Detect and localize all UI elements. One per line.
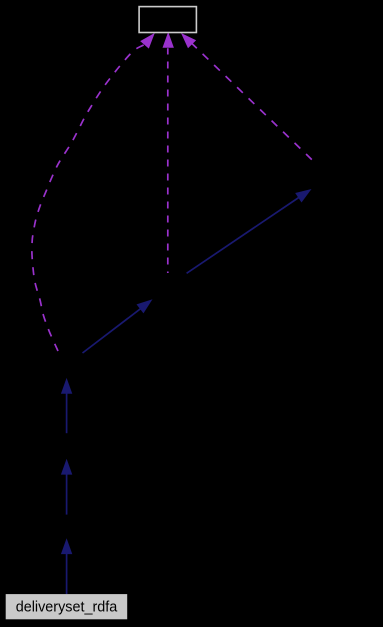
svg-text:deliveryset_rdfa: deliveryset_rdfa — [16, 600, 118, 616]
